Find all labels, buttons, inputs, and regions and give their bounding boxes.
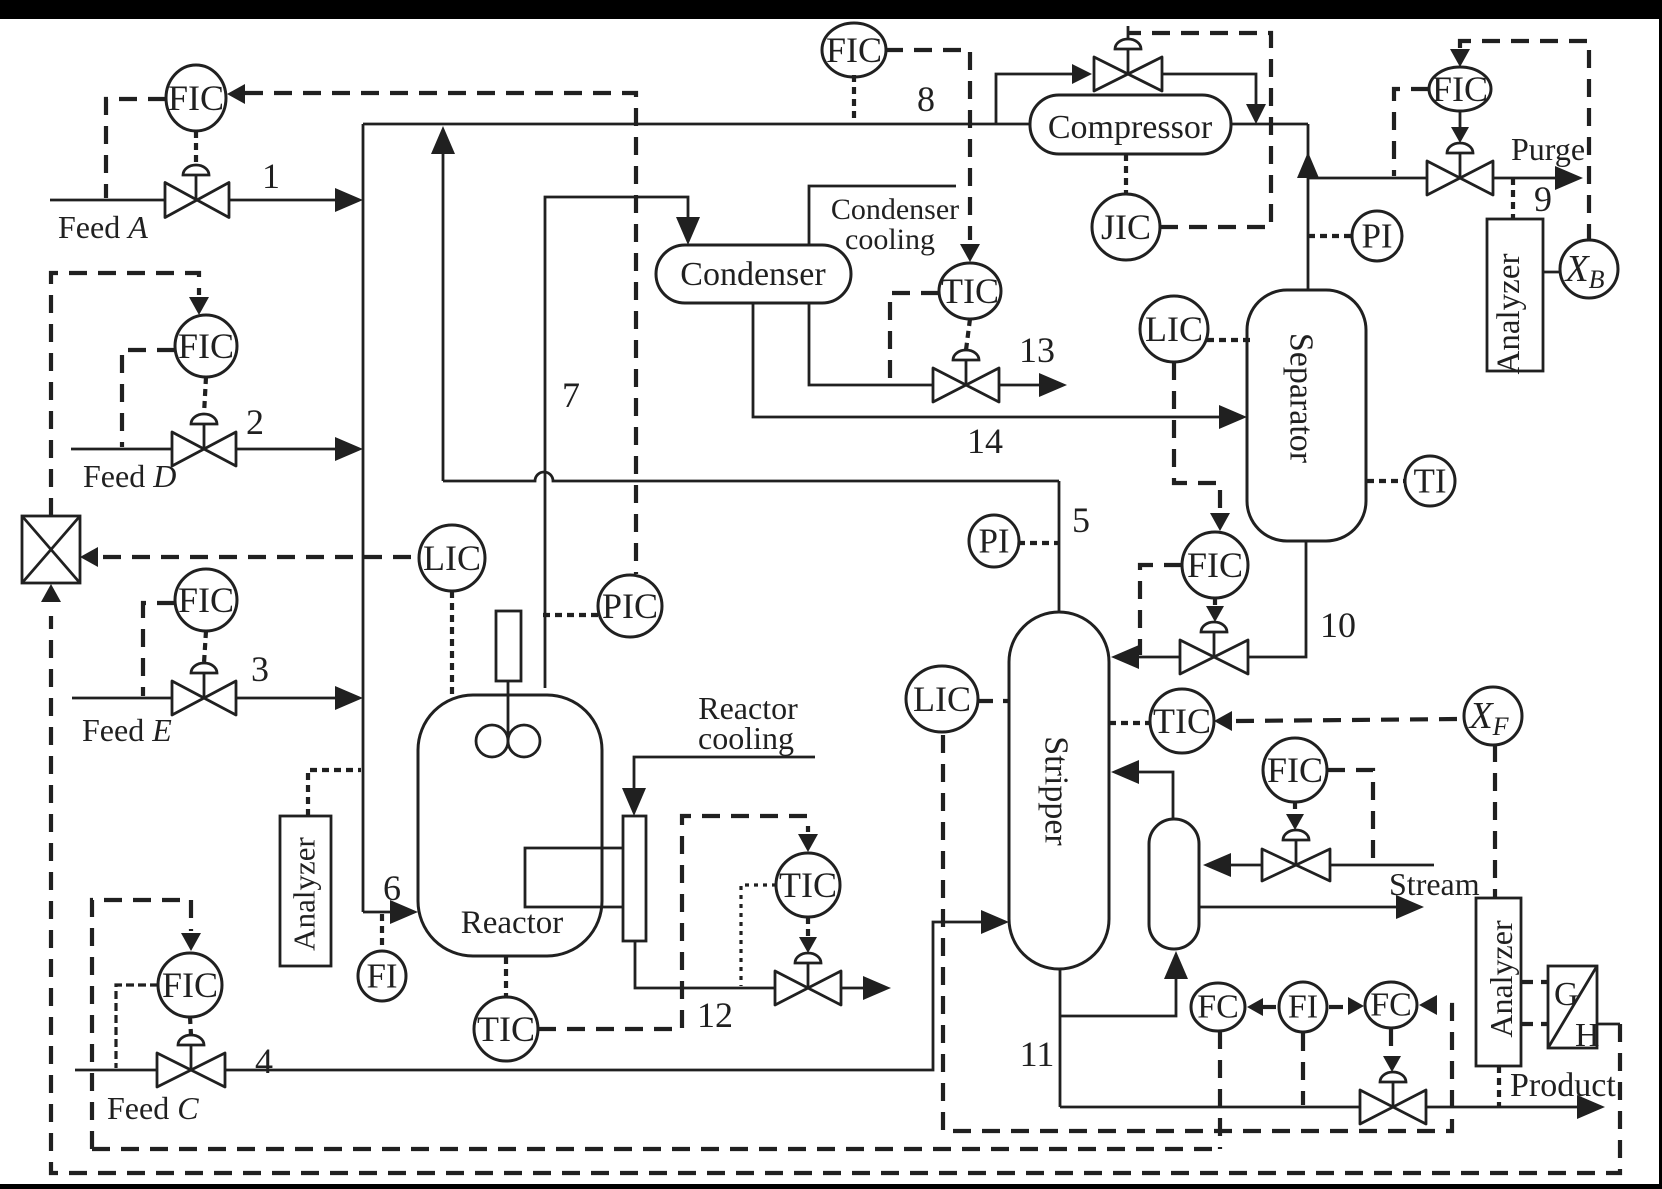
FIC-1 valve actuator — [183, 165, 209, 175]
svg-text:9: 9 — [1534, 179, 1552, 219]
svg-text:LIC: LIC — [1145, 309, 1203, 349]
svg-text:FI: FI — [1288, 989, 1318, 1026]
TIC-13 valve actuator — [953, 350, 979, 360]
controller TIC-13 condenser — [939, 263, 1001, 319]
TI measurement dotted — [1367, 479, 1406, 483]
svg-text:Analyzer: Analyzer — [1483, 920, 1519, 1038]
transmitter XB — [1560, 240, 1618, 298]
svg-text:8: 8 — [917, 79, 935, 119]
svg-text:Feed D: Feed D — [83, 458, 176, 494]
wire bypass return + arrow down — [1162, 74, 1256, 104]
wire feed D to header + arrow — [236, 448, 337, 451]
FIC-2 valve actuator — [191, 414, 217, 424]
TIC-r measurement dotted — [504, 957, 508, 997]
FIC-10 output dotted + arrow — [1213, 598, 1217, 608]
vessel Stripper — [1009, 612, 1109, 969]
svg-text:1: 1 — [262, 156, 280, 196]
signal XF to TIC-st dashed + arrow — [1214, 711, 1232, 731]
PI-r measurement dotted — [1308, 234, 1354, 238]
svg-text:Product: Product — [1510, 1067, 1616, 1104]
reactor outlet pipe — [525, 848, 623, 907]
controller JIC — [1092, 194, 1160, 260]
svg-text:cooling: cooling — [698, 720, 794, 756]
wire purge line — [1308, 177, 1427, 180]
FC-a output dashed down — [1218, 1031, 1222, 1149]
svg-text:TI: TI — [1413, 462, 1446, 501]
wire condenser outlet stream 14 — [753, 303, 1222, 417]
valve V12 cooling water — [775, 971, 841, 1005]
svg-text:PI: PI — [978, 522, 1009, 561]
svg-text:Analyzer: Analyzer — [287, 837, 322, 951]
transmitter XF — [1464, 687, 1522, 745]
LIC-s measurement dotted — [1207, 338, 1250, 342]
top black bar — [0, 0, 1662, 19]
svg-text:H: H — [1575, 1017, 1600, 1054]
JIC measurement dotted — [1124, 154, 1128, 194]
svg-text:FIC: FIC — [168, 78, 224, 118]
wire separator riser + up arrow — [1307, 124, 1310, 290]
svg-text:FC: FC — [1370, 987, 1412, 1024]
svg-text:Feed A: Feed A — [58, 209, 148, 245]
GH output stub — [1597, 1023, 1620, 1026]
signal TIC-r to TIC-12 dashed + arrow — [538, 816, 808, 1029]
svg-text:7: 7 — [562, 375, 580, 415]
analyzer A3 sample dotted — [1497, 1066, 1501, 1107]
controller FIC-9 purge — [1429, 67, 1491, 111]
analyzer A2 purge box — [1487, 219, 1543, 371]
XF to analyzer dashed — [1493, 744, 1497, 897]
FI to FC-c arrow — [1329, 1005, 1343, 1009]
valve V4 feed C — [157, 1053, 225, 1087]
vessel Reactor — [418, 695, 602, 956]
mixer ratio station box — [22, 516, 80, 583]
wire steam line — [1330, 864, 1434, 867]
TIC-12 output dotted + arrow — [806, 917, 810, 938]
svg-text:Condenser: Condenser — [831, 193, 959, 226]
svg-text:FIC: FIC — [178, 326, 234, 366]
product valve actuator — [1380, 1072, 1406, 1082]
wire stream 5 riser — [442, 150, 445, 481]
svg-text:TIC: TIC — [1153, 701, 1211, 741]
controller FIC-1 feed A — [166, 65, 226, 131]
svg-text:2: 2 — [246, 402, 264, 442]
PIC measurement dotted — [543, 613, 600, 617]
controller FIC steam — [1263, 738, 1327, 802]
wire stream 13 out + arrow — [999, 384, 1042, 387]
controller FC-c — [1365, 982, 1417, 1028]
svg-text:FIC: FIC — [826, 30, 882, 70]
FIC-1 output dotted — [194, 131, 198, 165]
valve V2 feed D — [172, 432, 236, 466]
FIC-2 measurement dashed — [122, 350, 175, 447]
analyzer A1 sample dotted — [308, 770, 361, 816]
valve V9 purge — [1427, 161, 1493, 195]
wire suction line right of compressor — [1231, 123, 1308, 126]
XB analyzer link — [1543, 271, 1560, 274]
svg-text:10: 10 — [1320, 605, 1356, 645]
FIC-2 output dotted — [204, 377, 206, 414]
controller FIC-3 feed E — [175, 569, 237, 631]
svg-text:Compressor: Compressor — [1048, 109, 1213, 146]
valve V1 feed A — [165, 183, 229, 218]
svg-text:13: 13 — [1019, 330, 1055, 370]
TIC-13 measurement dashed — [890, 293, 939, 383]
svg-text:Stream: Stream — [1389, 866, 1480, 902]
wire product out + arrow — [1426, 1106, 1581, 1109]
svg-text:PI: PI — [1361, 217, 1392, 256]
wire stripper bottoms — [1059, 969, 1062, 1107]
svg-text:JIC: JIC — [1101, 207, 1151, 247]
LIC-r measurement dotted — [450, 591, 454, 694]
FIC-stm valve actuator — [1283, 830, 1309, 840]
wire feed C line — [75, 1069, 158, 1072]
wire product line — [1060, 1106, 1361, 1109]
vessel Separator — [1247, 290, 1366, 541]
signal JIC to bypass valve dashed — [1128, 33, 1271, 227]
indicator PI recycle — [1352, 211, 1402, 261]
valve V10 separator liquid — [1180, 640, 1248, 674]
svg-text:Stripper: Stripper — [1038, 736, 1075, 846]
FIC-9 measurement dashed — [1394, 89, 1429, 176]
wire condenser cooling frame — [809, 186, 956, 385]
wire stream 12 out + arrow — [841, 987, 867, 990]
wire reboiler vapor return + arrow — [1135, 772, 1173, 819]
wire recycle line y124 left of compressor — [363, 123, 1030, 126]
FIC-9 output — [1459, 111, 1462, 130]
svg-text:LIC: LIC — [913, 679, 971, 719]
controller TIC-12 — [776, 853, 840, 917]
svg-text:Purge: Purge — [1511, 131, 1585, 167]
wire feed A to header + arrow — [228, 199, 337, 202]
signal GH loop dashed (bottom) — [51, 616, 1620, 1173]
svg-text:6: 6 — [383, 868, 401, 908]
indicator FI-b — [1279, 982, 1327, 1032]
svg-text:Feed E: Feed E — [82, 712, 172, 748]
valve V3 feed E — [172, 681, 236, 715]
controller LIC reactor — [419, 525, 485, 591]
FIC-10 valve actuator — [1201, 622, 1227, 632]
reactor cooling exchanger — [623, 816, 646, 941]
TIC-13 output dotted — [966, 319, 970, 350]
controller FC-a — [1191, 983, 1245, 1031]
FIC-4 measurement dotted — [116, 985, 158, 1068]
wire feed E line — [72, 697, 171, 700]
svg-text:FIC: FIC — [1267, 750, 1323, 790]
svg-text:TIC: TIC — [779, 865, 837, 905]
TIC-st measurement dotted — [1109, 721, 1150, 725]
bottom black bar — [0, 1184, 1662, 1189]
wire feed header vertical (stream 8 down to reactor feed) — [362, 124, 365, 912]
FIC-4 output dotted — [190, 1017, 191, 1035]
wire reactor cooling inlet — [634, 757, 815, 792]
right edge black line — [1659, 0, 1662, 1189]
wire reboiler circulation + up arrow — [1060, 975, 1176, 1016]
wire feed C to stripper — [225, 922, 985, 1070]
wire separator outlet stream 10 — [1248, 541, 1306, 657]
FIC-3 measurement dashed — [143, 603, 175, 696]
svg-text:TIC: TIC — [477, 1009, 535, 1049]
reactor agitator shaft — [507, 681, 510, 741]
vessel Reboiler — [1149, 819, 1199, 949]
svg-text:Condenser: Condenser — [680, 256, 826, 293]
reactor impeller — [476, 725, 508, 757]
TIC-12 measurement dotted — [741, 885, 776, 986]
FIC-4 valve actuator — [178, 1035, 204, 1045]
svg-text:FI: FI — [366, 957, 397, 996]
controller PIC — [598, 575, 662, 637]
wire stream 5 horizontal with hump over stream7 — [443, 472, 1059, 481]
wire cooling outlet stream 12 — [635, 941, 775, 988]
wire purge out + arrow — [1493, 177, 1559, 180]
wire reboiler outlet + arrow — [1199, 906, 1400, 909]
controller LIC separator — [1140, 296, 1208, 362]
vessel Condenser — [656, 245, 851, 303]
vessel Compressor — [1030, 95, 1231, 154]
svg-text:FIC: FIC — [178, 580, 234, 620]
signal XB to FIC-9 dashed + arrow — [1460, 41, 1589, 242]
controller LIC stripper — [906, 666, 978, 732]
svg-text:FC: FC — [1197, 989, 1239, 1026]
wire stream 5 into stripper top — [1058, 481, 1061, 612]
wire stream 7 reactor overhead — [545, 197, 688, 688]
svg-text:TIC: TIC — [941, 271, 999, 311]
wire feed D line — [71, 448, 171, 451]
indicator PI-5 — [969, 515, 1019, 567]
G/H ratio box — [1548, 966, 1597, 1048]
controller FIC-4 feed C — [158, 953, 222, 1017]
signal LIC to mixer dashed + arrow — [80, 547, 98, 567]
PI-5 measurement dotted — [1018, 541, 1059, 545]
controller TIC reactor — [474, 997, 538, 1061]
wire feed E to header + arrow — [236, 697, 337, 700]
valve Vproduct — [1360, 1090, 1426, 1124]
FIC-9 valve actuator — [1447, 143, 1473, 153]
wire stream 10 into stripper + arrow — [1135, 656, 1180, 659]
GH-analyzer links dashed — [1521, 980, 1548, 984]
svg-text:4: 4 — [255, 1041, 273, 1081]
TIC-12 valve actuator — [795, 953, 821, 963]
svg-text:G: G — [1554, 976, 1579, 1013]
signal LIC-s to FIC-10 dashed + arrow — [1174, 362, 1220, 510]
controller TIC stripper — [1150, 689, 1214, 753]
indicator FI-6 — [358, 951, 406, 1001]
signal mixer to FIC-2 dashed + arrow — [51, 273, 199, 516]
svg-text:cooling: cooling — [845, 223, 935, 256]
reactor agitator motor — [496, 611, 521, 681]
LIC-st measurement dashed — [977, 699, 1009, 703]
analyzer A2 sample dotted — [1511, 178, 1515, 219]
svg-text:FIC: FIC — [1187, 545, 1243, 585]
FIC-1 measurement dashed — [106, 99, 166, 198]
analyzer A3 product box — [1476, 898, 1521, 1066]
FIC-3 valve actuator — [191, 663, 217, 673]
signal FIC-8 to TIC-13 dashed + arrow — [885, 50, 970, 240]
svg-text:3: 3 — [251, 649, 269, 689]
controller FIC-10 — [1182, 532, 1248, 598]
svg-text:11: 11 — [1020, 1034, 1055, 1074]
FIC-3 output dotted — [204, 631, 206, 663]
signal LIC-st to FC dashed + arrow — [943, 735, 1452, 1131]
wire reactor feed stream 6 + arrow — [363, 911, 394, 914]
svg-text:LIC: LIC — [423, 538, 481, 578]
svg-text:FIC: FIC — [1432, 69, 1488, 109]
indicator TI — [1405, 456, 1455, 506]
svg-text:12: 12 — [697, 995, 733, 1035]
FI to FC-a arrow — [1262, 1005, 1276, 1009]
FC-c output dashed + arrow — [1389, 1028, 1393, 1048]
svg-text:Analyzer: Analyzer — [1491, 254, 1527, 375]
wire steam into reboiler + arrow — [1227, 864, 1263, 867]
FI-6 measurement dotted — [380, 914, 384, 952]
FIC-10 measurement dashed — [1140, 565, 1182, 655]
signal FC to FIC-4 dashed + arrow — [92, 900, 191, 1149]
svg-text:FIC: FIC — [162, 965, 218, 1005]
wire compressor bypass — [996, 74, 1072, 124]
svg-text:Reactor: Reactor — [461, 905, 564, 941]
valve V13 condenser cooling — [933, 368, 999, 402]
FI-b measurement dashed — [1301, 1033, 1305, 1105]
FIC-stm measurement dashed — [1327, 770, 1373, 863]
valve Vsteam — [1262, 849, 1330, 881]
svg-text:Separator: Separator — [1283, 333, 1320, 464]
svg-text:5: 5 — [1072, 500, 1090, 540]
analyzer A1 reactor feed box — [280, 816, 331, 966]
wire feed A line — [50, 199, 165, 202]
signal PIC to FIC-1 dashed + arrow — [227, 84, 245, 104]
controller FIC-8 recycle — [822, 23, 886, 77]
signal FC-a to FIC-4 bottom run dashed — [92, 1147, 1220, 1151]
svg-text:14: 14 — [967, 421, 1003, 461]
svg-text:Feed C: Feed C — [107, 1090, 199, 1126]
controller FIC-2 feed D — [175, 315, 237, 377]
FIC-8 measurement dotted — [852, 75, 856, 122]
FIC-stm output dotted + arrow — [1293, 802, 1297, 816]
bypass valve actuator — [1115, 39, 1141, 49]
valve bypass — [1094, 57, 1162, 91]
svg-text:PIC: PIC — [602, 586, 658, 626]
